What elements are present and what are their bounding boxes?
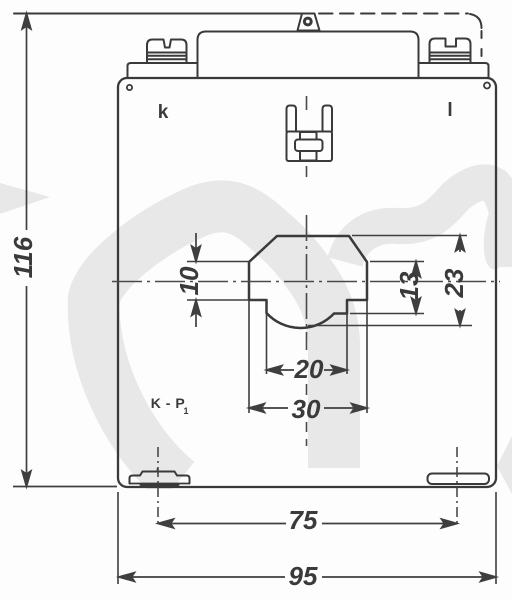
watermark logo background xyxy=(0,182,512,494)
terminal cover raised section xyxy=(198,32,419,79)
svg-text:13: 13 xyxy=(394,271,424,300)
bottom slot right xyxy=(428,474,490,485)
dim 30 xyxy=(249,300,367,413)
top phantom line xyxy=(14,13,302,15)
svg-text:1: 1 xyxy=(183,406,188,416)
dim 75 xyxy=(158,447,457,528)
svg-text:K - P: K - P xyxy=(151,395,185,411)
dim 23 xyxy=(308,236,472,326)
left terminal screw xyxy=(147,40,187,64)
body screw hole left xyxy=(127,85,132,90)
svg-text:75: 75 xyxy=(289,505,318,535)
mounting tab with hole xyxy=(298,14,320,31)
right terminal pedestal xyxy=(419,63,489,78)
body screw hole right xyxy=(484,83,490,89)
svg-text:20: 20 xyxy=(294,354,324,384)
left terminal pedestal xyxy=(128,63,198,78)
right terminal screw xyxy=(430,39,471,64)
svg-text:l: l xyxy=(447,100,452,121)
main drawing xyxy=(14,14,496,488)
dim 10 xyxy=(187,233,258,327)
horizontal centerline xyxy=(112,281,500,283)
dim 20 xyxy=(267,313,348,374)
center clamp detail xyxy=(287,106,333,162)
dim 13 xyxy=(350,262,424,314)
bottom slot left xyxy=(130,472,190,484)
svg-text:10: 10 xyxy=(174,266,204,295)
svg-text:116: 116 xyxy=(8,236,38,278)
body front plate xyxy=(118,78,496,487)
vertical centerline middle xyxy=(306,215,308,350)
svg-text:23: 23 xyxy=(439,268,469,298)
svg-text:95: 95 xyxy=(289,561,318,591)
dim 95 xyxy=(118,492,496,584)
dim 116 xyxy=(13,14,117,487)
svg-text:k: k xyxy=(158,102,169,123)
svg-text:30: 30 xyxy=(292,394,321,424)
centerlines xyxy=(112,96,500,446)
vertical centerline top xyxy=(306,96,308,177)
aperture window xyxy=(249,236,367,328)
